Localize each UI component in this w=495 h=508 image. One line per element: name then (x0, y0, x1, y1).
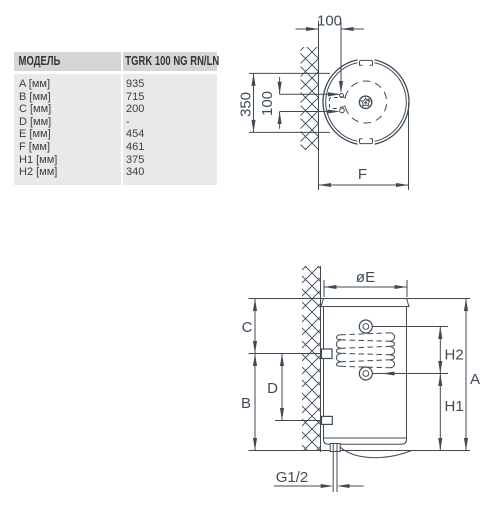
dim C: arrow up (253, 299, 257, 312)
svg-text:F: F (358, 166, 367, 183)
dim H1: arrow down (438, 438, 442, 451)
svg-text:100: 100 (259, 91, 276, 116)
front view: pipe fitting (330, 444, 340, 452)
dim 100 top: arrow left (341, 27, 354, 31)
dim 100 top: dimension line right part (341, 28, 364, 30)
svg-text:H2: H2 (445, 347, 464, 364)
svg-text:B: B (241, 395, 251, 412)
dim 100 left: arrow up (278, 112, 282, 125)
dim 350: extension line top (249, 72, 330, 74)
dim H1: arrow up (438, 374, 442, 387)
top view: center screw star (361, 98, 370, 106)
dim 350: dimension line (253, 73, 255, 132)
front view: wall line (320, 266, 322, 452)
dim H1: dimension line (439, 374, 441, 451)
front view: bottom dome (340, 447, 412, 458)
front view: leader line from lower hole (372, 373, 448, 375)
dim F: dimension line (319, 184, 409, 186)
svg-text:D: D (267, 380, 278, 397)
dim oE: dimension line (324, 286, 407, 288)
dim 100 top: arrow right into wall line (306, 27, 319, 31)
dim D: lower extension line (275, 420, 321, 422)
svg-text:350: 350 (238, 92, 255, 117)
dim 100 left: dimension line upper segment (279, 77, 281, 94)
dim 100 top: dimension line left part (296, 28, 319, 30)
dim H2: dimension line (439, 327, 441, 374)
dim 100 left: arrow down (278, 82, 282, 95)
dim G1/2: dimension line left (274, 485, 331, 487)
front view: upper pipe hole inner (363, 324, 369, 330)
front view: lower pipe hole outer (359, 367, 372, 380)
top view: center dot (364, 101, 367, 104)
svg-text:øE: øE (356, 269, 375, 286)
dimension table (14, 52, 217, 71)
front view: upper wall bracket (322, 349, 333, 359)
front view: tank body (324, 307, 407, 445)
front view: heating coil right turns (390, 333, 394, 368)
svg-text:100: 100 (317, 13, 342, 30)
dim D: arrow up (280, 354, 284, 367)
dim G1/2: arrow left (337, 484, 350, 488)
top view: center screw circle (359, 96, 371, 108)
bracket extension line (C/B/D shared) (249, 353, 321, 355)
svg-text:C: C (242, 319, 253, 336)
dim 100 left: dimension line lower segment (279, 112, 281, 129)
svg-text:G1/2: G1/2 (276, 469, 309, 486)
dim D: arrow down (280, 408, 284, 421)
dim F: arrow right (396, 183, 409, 187)
front view: tank inner bottom line (324, 437, 407, 439)
dim oE: extension lines (323, 280, 325, 297)
dim A: arrow down (464, 438, 468, 451)
dim A: arrow up (464, 299, 468, 312)
front view: bottom extension line (249, 450, 471, 452)
top view: top tab (358, 57, 375, 67)
dim oE: arrow left (324, 285, 337, 289)
dim B: arrow up (253, 354, 257, 367)
dim 100 left: leader line lower with arrow (280, 111, 338, 113)
front view: lid trapezoid (321, 299, 409, 307)
dim 100 left: leader line upper with arrow (280, 93, 338, 95)
dim 100 top: extension line to anchor (340, 22, 342, 91)
dim 350: arrow down (251, 120, 255, 133)
svg-text:H1: H1 (445, 398, 464, 415)
top view: dashed flange circle (345, 81, 387, 123)
svg-text:A: A (470, 371, 480, 388)
top view: center screw mark (367, 99, 369, 101)
front view: heating coil left turns (336, 335, 340, 367)
dim C: arrow down (253, 341, 257, 354)
top view: lower anchor hole (340, 108, 345, 113)
dim 100 top: arrow down at anchor (339, 81, 343, 94)
front view: lower wall bracket (322, 416, 333, 424)
front view: upper pipe hole outer (359, 320, 372, 333)
front view: heating coil dashed rows (341, 333, 391, 368)
top view: bottom tab (358, 138, 375, 148)
dim H2: arrow down (438, 361, 442, 374)
front view: wall hatch (302, 266, 321, 451)
front view: lower pipe hole inner (363, 371, 369, 377)
dim G1/2: dimension line right (339, 485, 364, 487)
top view: outer circle of tank (323, 59, 409, 145)
front view: arrow on lower leader (382, 371, 395, 375)
top view: bracket dashed outline (330, 98, 339, 109)
top view: upper anchor hole (340, 94, 344, 98)
dim D: dimension line (281, 354, 283, 421)
dim B: arrow down (253, 438, 257, 451)
top view: inner circle of tank (326, 62, 407, 143)
dim B: dimension line (254, 354, 256, 451)
front view: pipe (332, 452, 334, 493)
dim oE: arrow right (395, 285, 408, 289)
front view: leader line from upper hole (372, 326, 448, 328)
top view: keyhole arcs (340, 97, 346, 108)
dim A: dimension line (465, 299, 467, 451)
top view: wall line (318, 21, 320, 190)
dim H2: arrow up (438, 327, 442, 340)
top view: wall hatch (301, 47, 319, 150)
dim C: dimension line (254, 299, 256, 354)
dim F: arrow left (319, 183, 332, 187)
dim G1/2: arrow right (321, 484, 334, 488)
front view: top extension line (tank top) (249, 298, 471, 300)
dim 350: arrow up (251, 73, 255, 86)
dim F: extension line right (408, 103, 410, 190)
dim 350: extension line bottom (249, 131, 330, 133)
